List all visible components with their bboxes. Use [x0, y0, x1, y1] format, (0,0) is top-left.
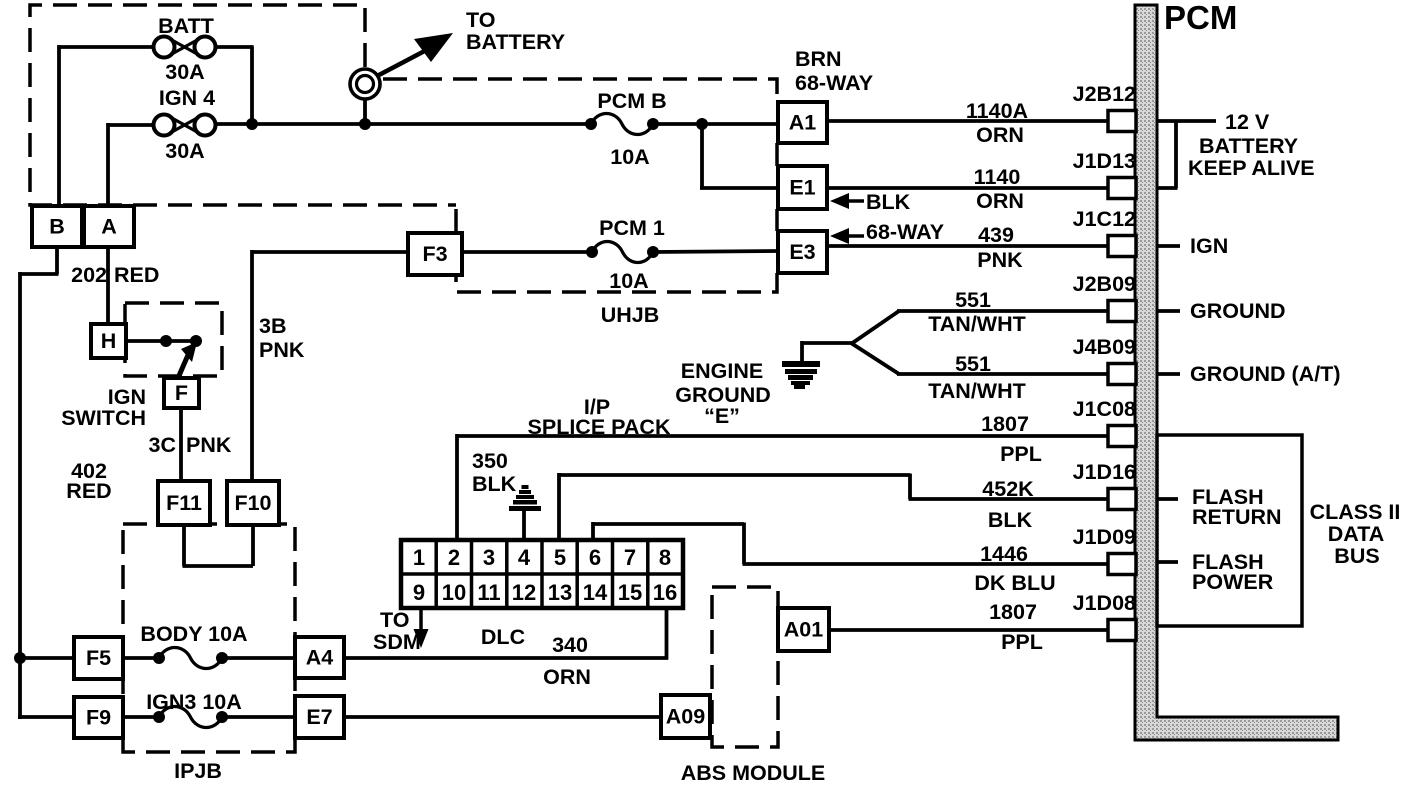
svg-text:BLK: BLK	[988, 508, 1033, 532]
svg-text:30A: 30A	[165, 60, 204, 84]
wire 1140 ORN E1 to J1D13	[827, 186, 1110, 190]
wire engine ground stem	[800, 341, 804, 363]
svg-text:F3: F3	[422, 242, 447, 266]
wire BATT fuse output	[216, 45, 254, 49]
PCM pin J2B09	[1108, 301, 1136, 322]
PCM pin J1C08	[1108, 426, 1136, 447]
svg-text:SPLICE PACK: SPLICE PACK	[528, 415, 671, 439]
wire F5 to BODY fuse	[121, 656, 159, 660]
svg-text:PPL: PPL	[1001, 630, 1043, 654]
PCM pin J1C12	[1108, 236, 1136, 257]
wire 402 RED left vertical	[18, 272, 22, 719]
lead GROUND	[1157, 309, 1180, 313]
svg-text:BATTERY: BATTERY	[1199, 134, 1298, 158]
svg-text:BUS: BUS	[1334, 544, 1379, 568]
wire F11 output down	[182, 523, 186, 566]
connector F10	[227, 481, 279, 525]
svg-text:12: 12	[512, 580, 536, 605]
svg-text:A: A	[101, 215, 117, 239]
svg-text:TO: TO	[466, 8, 495, 32]
arrow BLK 68-WAY at E1	[830, 193, 849, 209]
wire 1446 DK BLU to J1D09	[743, 562, 1111, 566]
connector F5	[74, 637, 123, 679]
svg-text:439: 439	[978, 223, 1014, 247]
connector F3	[408, 233, 462, 275]
svg-text:POWER: POWER	[1192, 570, 1274, 594]
svg-text:1140: 1140	[974, 165, 1021, 189]
wire 1807 PPL splice pack to J1C08	[456, 434, 1111, 438]
svg-text:9: 9	[413, 580, 425, 605]
fuse PCM 1 10A	[586, 246, 598, 258]
svg-text:14: 14	[583, 580, 608, 605]
svg-text:PNK: PNK	[977, 248, 1023, 272]
svg-text:ENGINE: ENGINE	[681, 359, 763, 383]
wire F11-F10 tie bar	[183, 564, 254, 568]
ignition switch dashed enclosure	[125, 303, 222, 376]
svg-text:J4B09: J4B09	[1073, 335, 1136, 359]
svg-text:BLK: BLK	[866, 190, 911, 214]
wire 439 PNK E3 to J1C12	[827, 244, 1110, 248]
svg-text:DATA: DATA	[1328, 522, 1385, 546]
svg-text:SDM: SDM	[373, 630, 421, 654]
wire 452K BLK to J1D16	[909, 497, 1111, 501]
PCM pin J1D08	[1108, 620, 1136, 641]
wire 551 TAN/WHT pair to ground	[802, 341, 853, 345]
switch contact dot	[160, 335, 172, 347]
svg-text:10: 10	[442, 580, 466, 605]
arrow TO SDM from DLC pin 9	[419, 609, 423, 632]
PCM pin J4B09	[1108, 364, 1136, 385]
connector F	[164, 378, 199, 408]
svg-text:A01: A01	[784, 618, 823, 642]
svg-text:6: 6	[589, 545, 601, 570]
wire 3C PNK F to F11	[179, 406, 183, 483]
svg-text:IPJB: IPJB	[174, 759, 222, 783]
svg-text:F: F	[175, 381, 188, 405]
svg-text:452K: 452K	[982, 477, 1034, 501]
svg-text:F10: F10	[234, 491, 271, 515]
svg-text:J1D09: J1D09	[1073, 525, 1136, 549]
wire PCM1 fuse to E3	[653, 251, 778, 252]
wire IGN4 fuse feed	[108, 123, 154, 127]
connector E7	[295, 696, 344, 738]
wire 1446 DK BLU upper run	[592, 522, 745, 526]
wire main bus to PCM B fuse	[216, 122, 591, 126]
svg-text:350: 350	[472, 449, 508, 473]
svg-text:J1D08: J1D08	[1073, 591, 1136, 615]
svg-text:68-WAY: 68-WAY	[866, 220, 944, 244]
svg-text:GROUND (A/T): GROUND (A/T)	[1190, 362, 1340, 386]
svg-text:B: B	[49, 215, 65, 239]
svg-text:PCM B: PCM B	[597, 89, 666, 113]
svg-text:DLC: DLC	[481, 625, 525, 649]
wire 1446 DK BLU jog down	[742, 523, 746, 565]
fusible link BATT 30A	[154, 37, 175, 58]
wire jog left	[20, 272, 59, 276]
connector A1	[778, 102, 827, 143]
svg-text:ABS MODULE: ABS MODULE	[681, 761, 826, 785]
svg-text:551: 551	[955, 352, 991, 376]
svg-text:30A: 30A	[165, 139, 204, 163]
svg-text:RED: RED	[66, 479, 111, 503]
wire E7 to A09	[342, 715, 663, 719]
svg-text:3: 3	[483, 545, 495, 570]
fuse IGN3 10A	[153, 711, 165, 723]
connector H	[91, 324, 126, 358]
svg-text:J1D13: J1D13	[1073, 149, 1136, 173]
svg-text:4: 4	[518, 545, 531, 570]
svg-text:GROUND: GROUND	[1190, 299, 1286, 323]
DLC connector	[401, 540, 683, 608]
connector E1	[778, 166, 827, 209]
wire F10 output down	[251, 523, 255, 566]
svg-text:1140A: 1140A	[966, 99, 1028, 123]
svg-text:J1D16: J1D16	[1073, 460, 1136, 484]
svg-text:J2B12: J2B12	[1073, 82, 1136, 106]
wire F9 to IGN3 fuse	[121, 715, 159, 719]
svg-text:A09: A09	[666, 705, 705, 729]
wire branch down to E1	[700, 122, 704, 188]
ground 350 BLK (I/P splice pack ground)	[509, 485, 541, 511]
PCM pin J2B12	[1108, 111, 1136, 132]
svg-text:3C: 3C	[149, 433, 176, 457]
fusible link IGN 4 30A	[154, 115, 175, 136]
wire 340 ORN	[342, 656, 668, 660]
CLASS II DATA BUS box	[1157, 435, 1302, 626]
svg-text:SWITCH: SWITCH	[61, 406, 146, 430]
PCM pin J1D16	[1108, 489, 1136, 510]
wire 202 RED to H	[106, 245, 110, 326]
svg-text:11: 11	[477, 580, 500, 605]
connector A	[84, 206, 134, 247]
svg-text:5: 5	[554, 545, 566, 570]
svg-text:F9: F9	[86, 706, 111, 730]
wire 452K BLK upper run	[558, 473, 911, 477]
connector E3	[778, 231, 827, 273]
svg-text:BODY 10A: BODY 10A	[140, 622, 247, 646]
svg-text:ORN: ORN	[543, 665, 591, 689]
svg-text:PPL: PPL	[1000, 442, 1042, 466]
svg-text:BLK: BLK	[472, 472, 517, 496]
wire DLC pin5 riser	[557, 473, 561, 542]
fuse PCM B 10A	[585, 118, 597, 130]
svg-text:1807: 1807	[989, 600, 1037, 624]
junction	[14, 652, 26, 664]
wire to F5	[18, 656, 76, 660]
junction	[696, 118, 708, 130]
svg-text:PCM: PCM	[1164, 0, 1237, 36]
wire IGN3 fuse to E7	[222, 715, 297, 719]
PCM module bar	[1135, 5, 1338, 740]
svg-text:E3: E3	[789, 240, 815, 264]
wire 3B PNK vertical to F10	[250, 250, 254, 483]
svg-text:PNK: PNK	[186, 433, 232, 457]
junction	[359, 118, 371, 130]
wire DLC pin4 ground stem	[522, 510, 526, 542]
svg-text:J1C08: J1C08	[1073, 397, 1136, 421]
svg-text:IGN3 10A: IGN3 10A	[146, 690, 242, 714]
wire ignition switch contact	[126, 339, 196, 343]
fuse BODY 10A	[153, 652, 165, 664]
wire DLC pin6 riser	[591, 522, 595, 542]
svg-text:TO: TO	[380, 608, 409, 632]
wire 1807 PPL from A01 to J1D08	[827, 628, 1110, 632]
wire DLC pin16 drop	[665, 609, 669, 660]
svg-text:1: 1	[413, 545, 425, 570]
UHJB dashed enclosure	[383, 79, 777, 102]
svg-text:A4: A4	[306, 646, 334, 670]
svg-text:551: 551	[955, 288, 991, 312]
svg-text:1807: 1807	[981, 412, 1029, 436]
wire 1140A ORN A1 to J2B12	[827, 119, 1110, 123]
svg-text:F11: F11	[166, 491, 202, 515]
svg-text:UHJB: UHJB	[601, 303, 660, 327]
svg-text:F5: F5	[86, 646, 111, 670]
svg-text:RED: RED	[114, 263, 159, 287]
svg-text:12 V: 12 V	[1225, 110, 1270, 134]
svg-text:J2B09: J2B09	[1073, 272, 1136, 296]
wire PCM B fuse to A1	[653, 122, 778, 126]
connector B	[32, 206, 82, 247]
svg-text:RETURN: RETURN	[1192, 505, 1282, 529]
svg-text:3B: 3B	[259, 314, 286, 338]
connector F9	[74, 697, 123, 738]
svg-text:ORN: ORN	[976, 123, 1024, 147]
svg-text:IGN: IGN	[1190, 234, 1228, 258]
svg-text:2: 2	[448, 545, 460, 570]
IPJB dashed enclosure	[123, 524, 295, 752]
switch contact dot	[190, 335, 202, 347]
svg-text:68-WAY: 68-WAY	[795, 71, 873, 95]
connector F11	[158, 481, 210, 525]
svg-text:KEEP ALIVE: KEEP ALIVE	[1188, 156, 1315, 180]
svg-text:H: H	[101, 329, 117, 353]
wire down to main bus	[250, 47, 254, 124]
wire 551 TAN/WHT to J2B09	[897, 309, 1110, 313]
connector A09	[661, 695, 710, 738]
svg-text:ORN: ORN	[976, 189, 1024, 213]
lead FLASH RETURN	[1157, 497, 1178, 501]
PCM pin J1D09	[1108, 554, 1136, 575]
svg-text:J1C12: J1C12	[1073, 207, 1136, 231]
wire 3B PNK horizontal to F3	[252, 250, 410, 254]
svg-text:IGN 4: IGN 4	[159, 86, 215, 110]
junction	[246, 118, 258, 130]
svg-text:“E”: “E”	[704, 404, 740, 428]
wire to F9	[18, 715, 76, 719]
wire down to connector A	[106, 123, 110, 208]
connector A4	[295, 637, 344, 678]
svg-text:CLASS II: CLASS II	[1310, 500, 1401, 524]
lead IGN	[1157, 244, 1180, 248]
wire down to connector B	[57, 45, 61, 208]
svg-text:E7: E7	[306, 705, 332, 729]
svg-text:8: 8	[659, 545, 671, 570]
svg-text:1446: 1446	[980, 542, 1028, 566]
ground ENGINE GROUND E	[782, 361, 820, 389]
svg-text:10A: 10A	[609, 269, 648, 293]
svg-text:13: 13	[548, 580, 572, 605]
svg-text:15: 15	[618, 580, 642, 605]
wire DLC pin2 riser	[455, 434, 459, 542]
battery junction block dashed enclosure	[30, 5, 456, 205]
battery ring terminal	[350, 69, 380, 99]
svg-text:PCM 1: PCM 1	[599, 216, 665, 240]
svg-text:340: 340	[552, 633, 588, 657]
wire BATT fuse feed	[59, 45, 154, 49]
PCM pin J1D13	[1108, 178, 1136, 199]
svg-text:DK BLU: DK BLU	[974, 571, 1055, 595]
svg-text:BATTERY: BATTERY	[466, 30, 565, 54]
12V keep-alive bracket	[1157, 119, 1216, 123]
wire F3 to PCM1 fuse	[462, 250, 592, 254]
arrow 68-WAY at E3	[830, 228, 849, 244]
svg-text:7: 7	[624, 545, 636, 570]
arrow TO BATTERY	[377, 45, 436, 76]
ABS module dashed enclosure	[712, 587, 778, 747]
wire to E1	[700, 186, 778, 190]
lead GROUND A/T	[1157, 372, 1180, 376]
svg-text:A1: A1	[789, 111, 817, 135]
connector A01	[778, 608, 829, 651]
wire battery terminal drop	[363, 97, 367, 124]
svg-text:TAN/WHT: TAN/WHT	[928, 379, 1026, 403]
wire connector B down	[55, 245, 59, 274]
svg-text:TAN/WHT: TAN/WHT	[928, 312, 1026, 336]
svg-text:10A: 10A	[610, 145, 649, 169]
wire 452K BLK jog down	[908, 474, 912, 500]
svg-text:16: 16	[653, 580, 677, 605]
lead FLASH POWER	[1157, 560, 1178, 564]
wire BODY fuse to A4	[222, 656, 297, 660]
svg-text:BATT: BATT	[158, 14, 214, 38]
switch lever with arrow	[178, 355, 188, 378]
svg-text:BRN: BRN	[795, 47, 842, 71]
svg-text:E1: E1	[789, 176, 815, 200]
svg-text:PNK: PNK	[259, 338, 305, 362]
svg-text:202: 202	[71, 263, 107, 287]
wire 551 TAN/WHT to J4B09	[897, 372, 1110, 376]
